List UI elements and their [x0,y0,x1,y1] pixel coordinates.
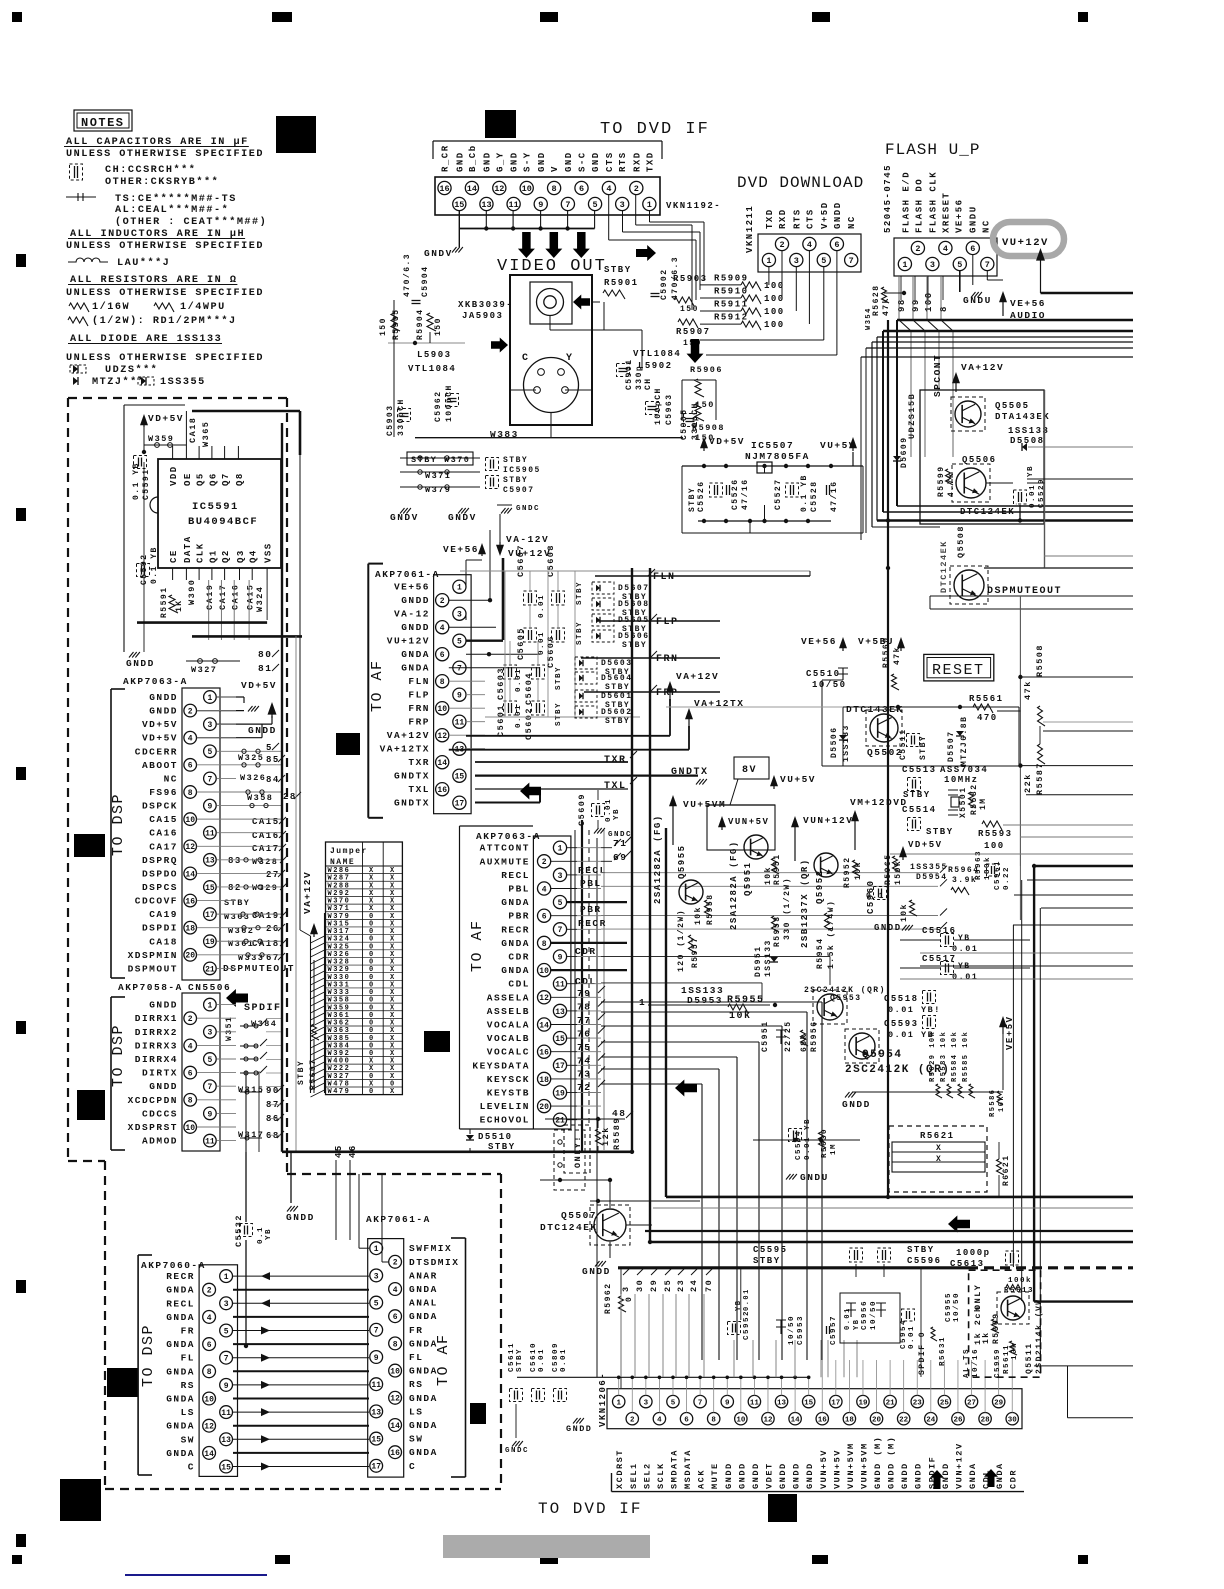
svg-text:VE+56: VE+56 [801,636,837,647]
svg-text:20: 20 [539,1103,549,1112]
svg-text:GNDD (M): GNDD (M) [873,1436,883,1489]
svg-text:SMDATA: SMDATA [669,1449,679,1489]
svg-text:13: 13 [555,1008,565,1017]
svg-text:6: 6 [188,1069,193,1078]
svg-text:RECR: RECR [501,924,530,935]
svg-text:MUTE: MUTE [710,1462,720,1489]
svg-text:73: 73 [577,1069,591,1080]
svg-text:10: 10 [539,967,549,976]
svg-text:D5608: D5608 [618,600,650,609]
svg-text:FLN: FLN [653,572,676,583]
svg-text:DIRTX: DIRTX [142,1068,178,1079]
svg-text:X: X [936,1155,942,1164]
svg-text:GNDD: GNDD [778,1462,788,1489]
svg-text:Q5955: Q5955 [677,844,687,879]
svg-text:Q5951: Q5951 [743,861,753,896]
svg-text:R5583 10k: R5583 10k [940,1031,948,1082]
svg-text:C5516: C5516 [922,926,957,936]
svg-text:12: 12 [390,1395,400,1404]
svg-text:ECHOVOL: ECHOVOL [480,1115,530,1126]
svg-text:RS: RS [409,1379,423,1390]
svg-text:YB: YB [265,1228,273,1240]
svg-text:1/4WPU: 1/4WPU [180,301,226,313]
svg-text:10: 10 [185,816,195,825]
svg-text:0.01: 0.01 [908,1325,916,1349]
svg-text:0.01: 0.01 [844,1307,852,1330]
svg-text:1k: 1k [982,1331,991,1344]
svg-text:GNDD: GNDD [286,1212,315,1223]
svg-text:C5953: C5953 [797,1315,805,1345]
svg-text:17: 17 [455,800,465,809]
svg-text:TO DVD IF: TO DVD IF [600,120,710,139]
svg-text:0.22: 0.22 [1003,866,1011,890]
svg-text:DTC124EK: DTC124EK [960,507,1015,517]
svg-text:2SB1237X (QR): 2SB1237X (QR) [800,858,810,948]
svg-text:Q2: Q2 [221,549,231,563]
svg-text:DIRRX4: DIRRX4 [135,1054,178,1065]
svg-text:330 (1/2W): 330 (1/2W) [783,877,792,940]
svg-text:13: 13 [371,1408,381,1417]
svg-text:29: 29 [994,1399,1004,1407]
svg-text:LS: LS [409,1406,423,1417]
svg-text:DSPRQ: DSPRQ [142,855,178,866]
svg-text:GNDD: GNDD [149,692,178,703]
svg-text:3: 3 [457,611,462,620]
svg-text:Q5502: Q5502 [867,747,903,758]
svg-text:7: 7 [558,926,563,935]
svg-text:7: 7 [207,1083,212,1092]
svg-text:TXL: TXL [604,781,627,792]
svg-text:16: 16 [439,184,449,194]
svg-text:15: 15 [205,884,215,893]
svg-text:VUN+5V: VUN+5V [728,817,769,827]
svg-text:GNDA: GNDA [401,663,430,674]
svg-text:85: 85 [266,755,280,765]
svg-text:7: 7 [207,775,212,784]
svg-text:11: 11 [221,1409,231,1418]
svg-text:R5586: R5586 [989,1088,997,1117]
svg-text:GNDA: GNDA [166,1448,195,1459]
svg-text:X: X [936,1144,942,1153]
svg-text:2: 2 [393,1259,398,1268]
svg-text:4: 4 [657,1416,662,1424]
svg-text:UNLESS OTHERWISE SPECIFIED: UNLESS OTHERWISE SPECIFIED [66,288,264,299]
svg-text:C5604: C5604 [524,672,534,705]
svg-text:DTSDMIX: DTSDMIX [409,1257,459,1268]
svg-text:2: 2 [630,1416,635,1424]
svg-text:9: 9 [457,692,462,701]
svg-text:0.01 YB!: 0.01 YB! [888,1005,941,1015]
svg-text:2: 2 [188,1015,193,1024]
svg-text:9: 9 [207,802,212,811]
svg-text:8: 8 [207,1368,212,1377]
svg-text:MTZJ6.8B: MTZJ6.8B [960,716,969,766]
svg-text:STBY: STBY [503,476,528,485]
svg-text:3: 3 [644,1399,649,1407]
svg-text:AKP7061-A: AKP7061-A [366,1214,431,1225]
svg-text:SEL2: SEL2 [642,1462,652,1489]
svg-text:D5507: D5507 [947,730,956,762]
svg-text:GNDTX: GNDTX [394,771,430,782]
svg-text:V+5D: V+5D [820,201,830,229]
svg-text:CA18: CA18 [188,417,198,443]
svg-text:GNDC: GNDC [505,1447,529,1455]
svg-text:CH: CH [644,377,653,390]
svg-text:10: 10 [437,705,447,714]
svg-text:W358: W358 [247,793,273,803]
svg-text:16: 16 [185,897,195,906]
svg-text:DVD DOWNLOAD: DVD DOWNLOAD [737,174,864,192]
svg-text:UNLESS OTHERWISE SPECIFIED: UNLESS OTHERWISE SPECIFIED [66,353,264,364]
svg-text:4: 4 [188,735,193,744]
svg-text:15: 15 [371,1435,381,1444]
svg-text:VA+12V: VA+12V [961,362,1004,373]
svg-text:150: 150 [680,305,699,314]
svg-text:GNDA: GNDA [166,1285,195,1296]
svg-text:2SD2114k (VW: 2SD2114k (VW [1035,1298,1044,1374]
svg-text:R5611: R5611 [1003,1344,1011,1374]
svg-text:28: 28 [283,792,297,802]
svg-text:12: 12 [494,184,504,194]
svg-text:D5601: D5601 [601,692,633,701]
svg-text:100: 100 [984,841,1005,851]
svg-text:FL: FL [181,1353,195,1364]
svg-text:YB: YB [613,808,621,820]
svg-text:Q3: Q3 [236,549,246,563]
svg-text:10/50: 10/50 [870,1300,878,1330]
svg-text:9: 9 [538,200,543,210]
svg-text:25: 25 [663,1279,673,1292]
svg-text:YB: YB [853,1319,861,1330]
svg-text:CDR: CDR [508,952,530,963]
svg-text:GNDD: GNDD [582,1266,611,1277]
svg-text:UNLESS OTHERWISE SPECIFIED: UNLESS OTHERWISE SPECIFIED [66,149,264,160]
svg-text:R5585 10k: R5585 10k [962,1031,970,1082]
svg-text:R5587: R5587 [1035,762,1045,795]
svg-text:KEYSTB: KEYSTB [487,1088,530,1099]
svg-text:7: 7 [985,260,990,270]
svg-text:Q6: Q6 [208,472,218,486]
svg-text:25: 25 [940,1399,950,1407]
svg-text:KEYSDATA: KEYSDATA [472,1060,530,1071]
svg-text:STBY: STBY [576,621,584,645]
svg-text:84: 84 [266,775,280,785]
svg-text:R5628: R5628 [872,284,881,316]
svg-text:TXL: TXL [408,784,430,795]
svg-text:VU+12V: VU+12V [387,636,430,647]
svg-text:30: 30 [635,1279,645,1292]
svg-text:C5603: C5603 [496,667,506,700]
svg-text:3: 3 [621,1285,631,1292]
svg-text:CH:CCSRCH***: CH:CCSRCH*** [105,164,196,176]
svg-text:W351: W351 [225,1016,234,1041]
svg-text:10: 10 [522,184,532,194]
svg-text:9: 9 [207,1110,212,1119]
svg-text:DTC124EK: DTC124EK [540,1222,598,1233]
svg-text:FRN: FRN [656,654,679,665]
svg-text:5: 5 [224,1327,229,1336]
svg-text:GND: GND [510,151,520,172]
svg-text:FLP: FLP [656,617,679,628]
svg-text:6: 6 [393,1313,398,1322]
svg-text:VKN1192-: VKN1192- [666,201,721,211]
svg-text:9: 9 [374,1354,379,1363]
svg-text:TO AF: TO AF [435,1333,452,1386]
svg-text:STBY: STBY [753,1256,781,1266]
svg-text:100: 100 [764,320,785,330]
svg-text:GND: GND [564,151,574,172]
svg-text:Q5506: Q5506 [962,455,997,465]
svg-text:C5517: C5517 [922,954,957,964]
svg-text:6: 6 [188,762,193,771]
svg-text:28: 28 [981,1416,991,1424]
svg-text:D5506: D5506 [830,726,839,758]
svg-text:C5907: C5907 [503,486,535,495]
svg-text:1000p: 1000p [956,1248,991,1258]
svg-text:C5962: C5962 [434,390,443,422]
svg-text:VD+5V: VD+5V [142,719,178,730]
svg-text:1: 1 [766,256,771,266]
svg-text:D5510: D5510 [478,1132,513,1142]
svg-text:3: 3 [930,260,935,270]
svg-text:STBY: STBY [622,641,647,650]
svg-text:15: 15 [555,1035,565,1044]
svg-text:4: 4 [207,1314,212,1323]
svg-text:6: 6 [970,244,975,254]
svg-text:D5609: D5609 [900,436,909,468]
svg-text:3: 3 [620,200,625,210]
svg-text:VE+56: VE+56 [1010,298,1046,309]
svg-text:CA19: CA19 [149,909,178,920]
svg-text:C5954: C5954 [900,1319,908,1349]
svg-text:7: 7 [565,200,570,210]
svg-text:GNDA: GNDA [166,1394,195,1405]
svg-text:14: 14 [437,759,447,768]
svg-text:CA17: CA17 [252,844,280,854]
svg-text:C5606: C5606 [546,635,556,668]
svg-text:120 (1/2W): 120 (1/2W) [677,909,686,972]
svg-text:R5955: R5955 [727,995,765,1006]
svg-text:STBY: STBY [555,702,563,726]
svg-text:L5903: L5903 [417,350,452,360]
svg-text:C5957: C5957 [830,1315,838,1345]
svg-text:G_Y: G_Y [495,151,505,172]
svg-text:R5621: R5621 [920,1131,955,1141]
svg-text:20: 20 [872,1416,882,1424]
svg-text:6: 6 [207,1341,212,1350]
svg-text:0.01: 0.01 [952,972,978,982]
svg-text:R5906: R5906 [690,365,723,375]
svg-text:1: 1 [558,845,563,854]
svg-text:VKN1211: VKN1211 [745,205,755,253]
svg-text:GNDD: GNDD [874,923,902,933]
svg-text:CDL: CDL [508,979,530,990]
svg-text:0.01: 0.01 [743,1288,751,1311]
svg-text:30: 30 [1008,1416,1018,1424]
svg-text:82: 82 [228,883,242,893]
svg-text:Y: Y [566,353,574,364]
svg-text:83: 83 [228,856,242,866]
svg-text:SPCONT: SPCONT [932,354,943,397]
svg-text:PBL: PBL [580,878,602,889]
svg-text:STBY: STBY [926,827,954,837]
svg-text:MSDATA: MSDATA [683,1449,693,1489]
svg-text:GNDA: GNDA [409,1447,438,1458]
svg-text:R5958: R5958 [706,893,715,925]
svg-text:FLASH DO: FLASH DO [915,178,925,233]
svg-text:ATTCONT: ATTCONT [480,843,530,854]
svg-text:C5809: C5809 [552,1342,560,1372]
svg-text:LAU***J: LAU***J [117,257,170,269]
svg-text:ABOOT: ABOOT [142,760,178,771]
svg-text:VD+5V: VD+5V [241,680,277,691]
svg-text:5: 5 [821,256,826,266]
svg-text:VU+12V: VU+12V [1002,237,1049,249]
svg-text:470/6.3: 470/6.3 [403,253,412,297]
svg-text:IC5507: IC5507 [751,440,794,451]
svg-text:1: 1 [647,200,652,210]
svg-text:GNDA: GNDA [968,1462,978,1489]
svg-text:GNDD: GNDD [149,706,178,717]
svg-text:C5611: C5611 [508,1342,516,1372]
svg-text:150: 150 [434,317,443,336]
svg-text:DIRRX1: DIRRX1 [135,1013,178,1024]
svg-text:R5907: R5907 [676,327,711,337]
svg-text:W363: W363 [224,912,250,922]
svg-text:GNDD: GNDD [566,1424,592,1434]
svg-text:47/16: 47/16 [830,480,839,512]
svg-text:7: 7 [224,1355,229,1364]
svg-text:CTS: CTS [605,151,615,172]
svg-text:GNDA: GNDA [166,1421,195,1432]
svg-text:CA17: CA17 [149,841,178,852]
svg-text:Q5505: Q5505 [995,401,1030,411]
svg-text:10k: 10k [694,906,703,925]
svg-text:C5963: C5963 [665,393,674,425]
svg-text:1: 1 [457,584,462,593]
svg-text:SW: SW [181,1434,195,1445]
svg-text:DSPMOUT: DSPMOUT [128,963,178,974]
svg-text:1SS133: 1SS133 [1008,426,1049,436]
svg-text:VTL1084: VTL1084 [408,364,456,374]
svg-text:20: 20 [185,952,195,961]
svg-text:GNDD: GNDD [842,1099,871,1110]
svg-text:8: 8 [711,1416,716,1424]
svg-text:R_CR: R_CR [441,144,451,172]
svg-text:10/16: 10/16 [972,1348,980,1378]
svg-text:C5514: C5514 [902,805,937,815]
svg-text:RECR: RECR [578,918,607,929]
svg-text:12: 12 [204,1423,214,1432]
svg-text:46: 46 [348,1144,358,1158]
svg-text:8: 8 [552,184,557,194]
svg-text:1: 1 [616,1399,621,1407]
svg-text:GNDA: GNDA [409,1393,438,1404]
svg-text:19: 19 [555,1089,565,1098]
svg-text:19: 19 [858,1399,868,1407]
svg-text:ADMOD: ADMOD [142,1136,178,1147]
svg-text:100: 100 [924,291,934,312]
svg-text:VD+5V: VD+5V [142,733,178,744]
svg-text:DSPCS: DSPCS [142,882,178,893]
svg-text:GNDA: GNDA [501,965,530,976]
svg-text:C5601: C5601 [496,704,506,737]
svg-text:R5901: R5901 [604,278,639,288]
svg-text:10: 10 [390,1367,400,1376]
svg-text:3: 3 [794,256,799,266]
svg-text:3: 3 [558,872,563,881]
svg-text:XRESET: XRESET [942,192,952,233]
svg-text:STBY: STBY [576,581,584,605]
svg-text:11: 11 [455,719,465,728]
svg-text:0.01: 0.01 [538,631,546,655]
svg-text:GNDD: GNDD [401,595,430,606]
svg-text:GNDA: GNDA [166,1366,195,1377]
svg-text:8: 8 [939,305,949,312]
svg-text:C5605: C5605 [516,627,526,660]
svg-text:W390: W390 [187,579,197,605]
svg-text:DSPCK: DSPCK [142,801,178,812]
svg-text:R5956: R5956 [810,1020,819,1052]
svg-text:3: 3 [374,1272,379,1281]
svg-text:XCDRST: XCDRST [615,1449,625,1489]
svg-text:AKP7060-A: AKP7060-A [141,1260,206,1271]
svg-text:R5561: R5561 [969,694,1004,704]
svg-text:STBY: STBY [919,735,928,760]
svg-text:GNDA: GNDA [409,1366,438,1377]
svg-text:CDCCS: CDCCS [142,1108,178,1119]
svg-text:6: 6 [834,240,839,250]
svg-text:R5613: R5613 [1004,1287,1034,1295]
svg-text:C5901: C5901 [625,358,634,390]
svg-text:GNDD: GNDD [401,622,430,633]
svg-text:FLP: FLP [408,690,430,701]
svg-text:RXD: RXD [778,208,788,229]
svg-text:VA+12V: VA+12V [302,871,313,914]
svg-text:11: 11 [508,200,518,210]
svg-text:14: 14 [539,1021,549,1030]
svg-text:STBY: STBY [555,666,563,690]
svg-text:23: 23 [676,1279,686,1292]
svg-text:C5518: C5518 [884,994,919,1004]
svg-text:DATA: DATA [183,535,193,563]
svg-text:1: 1 [224,1273,229,1282]
svg-text:STBY: STBY [297,1060,306,1085]
svg-text:R5508: R5508 [1035,644,1045,677]
svg-text:RECR: RECR [166,1271,195,1282]
svg-text:STBY: STBY [604,265,632,275]
svg-text:C5510: C5510 [806,669,841,679]
svg-text:GNDA: GNDA [501,938,530,949]
svg-text:18: 18 [845,1416,855,1424]
svg-text:VE+56: VE+56 [443,544,479,555]
svg-text:0.1: 0.1 [257,1226,265,1244]
svg-text:ANAR: ANAR [409,1270,438,1281]
svg-text:GNDV: GNDV [448,512,477,523]
svg-text:13: 13 [205,857,215,866]
svg-text:CDR: CDR [1009,1469,1019,1489]
svg-text:9: 9 [725,1399,730,1407]
svg-text:GND: GND [591,151,601,172]
svg-text:W365: W365 [201,421,211,447]
svg-text:15: 15 [454,200,464,210]
svg-text:XCDCPDN: XCDCPDN [128,1095,178,1106]
svg-text:C: C [522,353,530,364]
svg-text:GNDD: GNDD [833,201,843,229]
svg-text:2SA1282A (FG): 2SA1282A (FG) [653,814,663,904]
svg-text:4: 4 [393,1286,398,1295]
svg-text:X5501: X5501 [959,786,968,818]
